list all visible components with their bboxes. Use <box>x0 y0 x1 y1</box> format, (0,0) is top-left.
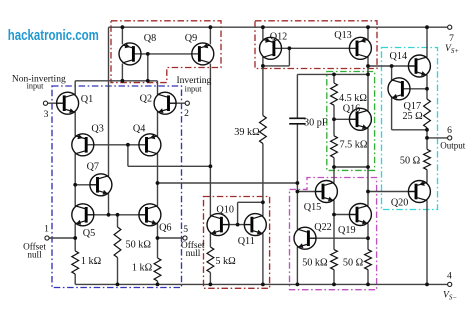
value 1 kOhm right <box>132 263 153 274</box>
pin number 1 <box>44 223 49 234</box>
junction Q19 emitter / Q22 base <box>366 236 370 240</box>
svg-text:hackatronic.com: hackatronic.com <box>8 27 99 44</box>
label Q22 <box>314 222 332 233</box>
wire Q17 base <box>410 88 427 90</box>
wire Q17 collector <box>391 66 393 80</box>
wire Q5 emitter <box>74 223 76 251</box>
resistor 7.5k <box>331 136 338 158</box>
label Q20 <box>391 197 409 208</box>
transistor Q6 <box>139 204 161 226</box>
label Inverting input line2 <box>185 84 203 93</box>
junction Q11 emitter / V- rail <box>261 283 265 287</box>
wire Q12 base tie down <box>288 48 290 66</box>
label Q9 <box>185 33 197 44</box>
wire 25ohm bottom node <box>426 128 428 150</box>
junction Q12 collector <box>261 64 265 68</box>
wire 4.5k-7.5k middle <box>333 105 335 136</box>
junction Q20 base / Q19 collector <box>366 190 370 194</box>
junction Q16 collector <box>366 73 370 77</box>
junction Q22 emitter / V- rail <box>296 283 300 287</box>
svg-text:5: 5 <box>183 224 188 235</box>
svg-text:5 kΩ: 5 kΩ <box>215 256 236 267</box>
wire 39k bottom to Q11 collector <box>262 144 264 216</box>
svg-text:Q7: Q7 <box>87 161 99 172</box>
junction Q10-Q11 base tie <box>236 223 240 227</box>
wire Q2 base to pin2 <box>168 102 185 104</box>
junction Q14 collector / V+ rail <box>425 25 429 29</box>
svg-text:Q12: Q12 <box>270 31 288 42</box>
wire Q15 base <box>297 191 323 193</box>
wire cap bottom vertical to Q22 collector <box>296 124 298 230</box>
junction 50ohm-2 bottom / V- rail <box>366 283 370 287</box>
svg-text:4: 4 <box>447 270 452 281</box>
transistor Q20 <box>408 181 430 203</box>
wire V_S+ top rail <box>109 26 448 28</box>
wire 50ohm-2 bottom lead <box>367 270 369 285</box>
wire to Q14 base <box>368 65 416 67</box>
wire 50ohm to Q20 emitter <box>426 170 428 183</box>
svg-text:input: input <box>27 82 45 91</box>
pin number 6 <box>447 125 452 136</box>
resistor 4.5k <box>331 83 338 105</box>
capacitor 30pF <box>289 118 305 124</box>
value 50 kOhm second stage <box>302 258 328 269</box>
wire 50k top lead <box>117 215 119 227</box>
section box: current mirror Q10/Q11 (red) <box>204 197 270 289</box>
junction Q8 collector node <box>121 79 125 83</box>
label Q2 <box>140 93 152 104</box>
svg-text:6: 6 <box>447 125 452 136</box>
wire Q11 emitter <box>262 233 264 284</box>
svg-text:Q19: Q19 <box>338 225 356 236</box>
svg-text:7: 7 <box>449 33 454 44</box>
wire Q4 collector to Q6 collector <box>157 154 159 207</box>
wire Q20 collector <box>426 200 428 284</box>
junction output node <box>425 136 429 140</box>
wire Q14 collector <box>426 27 428 57</box>
wire Q14 emitter to 25ohm <box>426 75 428 99</box>
wire Q3 collector to Q5 collector <box>74 154 76 207</box>
wire Q7 base <box>75 184 98 186</box>
pin number 2 <box>184 108 189 119</box>
junction Q20 collector / V- rail <box>425 283 429 287</box>
pin number 5 <box>183 224 188 235</box>
junction Q9 collector / Q3-Q4 base <box>209 164 213 168</box>
resistor 39k <box>260 116 267 144</box>
wire Q8 emitter <box>121 27 123 44</box>
transistor Q16 <box>349 108 371 130</box>
svg-text:3: 3 <box>44 109 49 120</box>
junction 50k-2 bottom / V- rail <box>332 283 336 287</box>
value 1 kOhm left <box>81 256 102 267</box>
junction Q11 collector tie <box>261 200 265 204</box>
wire Q10 emitter to 5k <box>209 233 211 247</box>
resistor 50k input stage <box>114 227 121 258</box>
label Q13 <box>334 30 352 41</box>
wire Q12 base tie across <box>263 65 290 67</box>
svg-text:Q3: Q3 <box>91 124 103 135</box>
wire Q12-Q13 base rail <box>281 47 349 49</box>
junction Q12 emitter / V+ rail <box>261 25 265 29</box>
wire Q9 collector down to Q10 <box>209 64 211 216</box>
transistor Q8 <box>119 43 141 65</box>
section box: differential input stage (blue) <box>52 86 182 288</box>
transistor Q3 <box>72 134 94 156</box>
wire Q15 emitter to 50k <box>333 200 335 249</box>
junction Q9 emitter / V+ rail <box>209 25 213 29</box>
wire Q5-Q6 base rail <box>86 214 146 216</box>
junction Q17 collector <box>390 64 394 68</box>
label V_S- supply <box>443 291 457 302</box>
svg-text:Q10: Q10 <box>216 204 234 215</box>
wire Q13 emitter <box>367 27 369 39</box>
label Offset null pin1 line1 <box>23 241 46 251</box>
wire Q22 base <box>308 237 368 239</box>
junction 50k bottom / V- rail <box>116 283 120 287</box>
pin number 4 <box>447 270 452 281</box>
svg-text:Output: Output <box>440 140 466 150</box>
wire Q2 collector <box>157 81 159 95</box>
transistor Q4 <box>139 134 161 156</box>
svg-text:Q11: Q11 <box>238 236 255 247</box>
junction cap bottom / stage link <box>296 181 300 185</box>
resistor 5k <box>207 247 214 273</box>
junction Q5 emitter / pin1 <box>73 236 77 240</box>
resistor 50ohm second stage <box>365 250 372 270</box>
svg-text:null: null <box>186 249 201 259</box>
svg-text:1 kΩ: 1 kΩ <box>81 256 102 267</box>
wire V+ drop to Q7 collector <box>108 27 110 176</box>
wire Q12 emitter <box>262 27 264 39</box>
wire Q10-Q11 base rail <box>221 224 252 226</box>
wire 7.5k bottom lead <box>333 158 335 167</box>
label Inverting input line1 <box>176 76 211 86</box>
transistor Q1 <box>57 92 79 114</box>
wire Q11 base tie to collector <box>238 201 263 203</box>
svg-text:2: 2 <box>184 108 189 119</box>
transistor Q12 <box>260 37 282 59</box>
transistor Q22 <box>294 227 316 249</box>
svg-text:50 kΩ: 50 kΩ <box>302 258 328 269</box>
junction Q7 emitter / Q5-Q6 base rail <box>107 213 111 217</box>
junction Q4 collector tap <box>156 181 160 185</box>
junction 4.5k top <box>332 73 336 77</box>
transistor Q10 <box>207 214 229 236</box>
svg-text:Q2: Q2 <box>140 93 152 104</box>
wire cap top vertical <box>296 74 298 118</box>
svg-text:30 pF: 30 pF <box>304 117 328 128</box>
transistor Q11 <box>244 214 266 236</box>
wire Q22 emitter <box>296 247 298 284</box>
wire Q11 base tie up <box>237 202 239 224</box>
value 4.5 kOhm <box>339 93 367 104</box>
wire Q17 emitter vertical <box>391 98 393 130</box>
value 50 Ohm second stage <box>343 258 364 269</box>
wire 5k bottom lead <box>209 273 211 285</box>
value 5 kOhm <box>215 256 236 267</box>
svg-text:1: 1 <box>44 223 49 234</box>
value 50 kOhm input <box>125 240 151 251</box>
svg-text:Q6: Q6 <box>159 223 171 234</box>
label Offset null pin5 line1 <box>181 240 205 251</box>
resistor 50k second stage <box>331 250 338 270</box>
wire Q19 collector <box>367 167 369 206</box>
junction Q13 collector / Q14 base <box>366 64 370 68</box>
wire Q19 base <box>334 214 357 216</box>
terminal pin 5 offset null <box>183 236 187 240</box>
svg-text:4.5 kΩ: 4.5 kΩ <box>339 93 367 104</box>
wire base-rail tap down <box>127 145 129 167</box>
wire Q12 collector to 39k <box>262 57 264 116</box>
junction Q14 emitter / Q17 base <box>425 87 429 91</box>
resistor 1k right <box>154 258 161 281</box>
svg-text:Q15: Q15 <box>304 202 322 213</box>
resistor 25ohm <box>424 99 431 128</box>
wire output to pin6 <box>427 137 448 139</box>
transistor Q14 <box>408 55 430 77</box>
label Q11 <box>238 236 255 247</box>
wire 50k-2 bottom lead <box>333 270 335 285</box>
svg-text:Q16: Q16 <box>343 103 361 114</box>
svg-text:25 Ω: 25 Ω <box>402 111 423 122</box>
label Q16 <box>343 103 361 114</box>
junction Q15 emitter / Q19 base <box>332 213 336 217</box>
label Q12 <box>270 31 288 42</box>
junction Q16 base <box>332 117 336 121</box>
junction Q16 emitter / Q19 collector <box>366 165 370 169</box>
wire 4.5k top lead <box>333 74 335 83</box>
label Q17 <box>404 101 422 112</box>
section box: output stage (cyan) <box>382 48 438 210</box>
pin number 7 <box>449 33 454 44</box>
wire 1k-left bottom lead <box>74 274 76 284</box>
transistor Q2 <box>154 92 176 114</box>
svg-text:Q1: Q1 <box>81 94 93 105</box>
label Offset null pin1 line2 <box>27 249 42 259</box>
wire Q20 base <box>368 191 416 193</box>
wire pin3 to Q1 base <box>48 102 65 104</box>
transistor Q5 <box>72 204 94 226</box>
label Q3 <box>91 124 103 135</box>
label Q4 <box>133 124 145 135</box>
junction Q6 emitter / pin5 <box>156 236 160 240</box>
wire tap to Q9/Q10 line <box>128 165 210 167</box>
wire Q1 collector <box>74 81 76 95</box>
terminal pin 2 inverting input <box>185 101 189 105</box>
transistor Q13 <box>349 37 371 59</box>
wire VBE-multiplier bottom <box>334 166 368 168</box>
wire Q16 base <box>334 118 357 120</box>
wire 50k bottom lead <box>117 258 119 285</box>
junction Q8 base tie <box>146 52 150 56</box>
label Non-inverting input line2 <box>27 82 45 91</box>
transistor Q19 <box>349 204 371 226</box>
value 50 Ohm output <box>400 155 421 166</box>
terminal pin 1 offset null <box>45 236 49 240</box>
terminal pin 6 output <box>448 136 452 140</box>
junction 5k bottom / V- rail <box>209 283 213 287</box>
wire pin5 offset null <box>158 237 183 239</box>
svg-text:Q13: Q13 <box>334 30 352 41</box>
svg-text:50 Ω: 50 Ω <box>400 155 421 166</box>
wire Q6 emitter <box>157 223 159 258</box>
label Q10 <box>216 204 234 215</box>
junction Q3-Q4 base rail tap <box>126 143 130 147</box>
label Q15 <box>304 202 322 213</box>
wire Q8-Q9 base rail <box>141 53 192 55</box>
label Non-inverting input line1 <box>12 75 66 85</box>
svg-text:Q4: Q4 <box>133 124 145 135</box>
svg-text:Q22: Q22 <box>314 222 332 233</box>
resistor 50ohm output <box>424 149 431 169</box>
section box: class-A gain stage (magenta) <box>290 178 377 290</box>
svg-text:Q20: Q20 <box>391 197 409 208</box>
junction Q15 base / Q22 collector <box>296 190 300 194</box>
junction 50k top / base rail <box>116 213 120 217</box>
svg-text:39 kΩ: 39 kΩ <box>234 127 260 138</box>
terminal pin 3 non-inverting input <box>43 101 47 105</box>
wire Q19 emitter <box>367 223 369 249</box>
section box: current mirror Q12/Q13 (red) <box>255 21 377 69</box>
label Q6 <box>159 223 171 234</box>
label Q1 <box>81 94 93 105</box>
pin number 3 <box>44 109 49 120</box>
junction 25ohm bottom / Q17 emitter <box>425 128 429 132</box>
terminal pin 4 V_S- <box>448 282 452 286</box>
junction base tie / collector node <box>146 79 150 83</box>
terminal pin 7 V_S+ <box>448 25 452 29</box>
transistor Q7 <box>90 174 112 196</box>
wire V_S- bottom rail <box>75 283 447 285</box>
wire Q9 emitter <box>209 27 211 44</box>
svg-text:Q8: Q8 <box>144 33 156 44</box>
value 39 kOhm <box>234 127 260 138</box>
svg-text:input: input <box>185 84 203 93</box>
label Q19 <box>338 225 356 236</box>
wire Q3-Q4 base rail <box>94 144 139 146</box>
wire input collectors node <box>75 80 157 82</box>
resistor 1k left <box>72 251 79 274</box>
svg-text:7.5 kΩ: 7.5 kΩ <box>340 139 368 150</box>
svg-text:Q9: Q9 <box>185 33 197 44</box>
junction Q8 emitter / V+ rail <box>121 25 125 29</box>
wire Q13 collector to Q16 collector <box>367 57 369 111</box>
wire first stage output to second stage <box>158 182 298 184</box>
junction 1k-right bottom / V- rail <box>156 283 160 287</box>
wire pin1 offset null <box>49 237 75 239</box>
wire 1k-right bottom lead <box>157 281 159 284</box>
svg-text:50 kΩ: 50 kΩ <box>125 240 151 251</box>
wire Q1 emitter to Q3 emitter <box>74 112 76 136</box>
watermark hackatronic.com <box>8 27 99 44</box>
section box: voltage level shifter Q16 (green) <box>327 72 375 171</box>
label Q7 <box>87 161 99 172</box>
wire Q8 collector <box>121 64 123 81</box>
label Output <box>440 140 466 150</box>
svg-text:1 kΩ: 1 kΩ <box>132 263 153 274</box>
wire Q17 emitter horizontal <box>392 129 427 131</box>
label Q5 <box>83 228 95 239</box>
transistor Q9 <box>192 43 214 65</box>
wire compensation-cap top horizontal <box>297 73 368 75</box>
junction 7.5k bottom / Q15 collector <box>332 165 336 169</box>
wire Q2 emitter to Q4 emitter <box>157 112 159 136</box>
wire Q15 collector <box>333 167 335 183</box>
transistor Q15 <box>315 181 337 203</box>
wire Q7 emitter <box>108 193 110 214</box>
svg-text:50 Ω: 50 Ω <box>343 258 364 269</box>
label V_S+ supply <box>445 44 459 55</box>
value 25 Ohm <box>402 111 423 122</box>
label Q8 <box>144 33 156 44</box>
label Q14 <box>390 51 408 62</box>
svg-text:Q5: Q5 <box>83 228 95 239</box>
value 30 pF <box>304 117 328 128</box>
wire Q16 emitter <box>367 128 369 167</box>
transistor Q17 <box>388 78 410 100</box>
value 7.5 kOhm <box>340 139 368 150</box>
section box: input-stage current mirror Q8/Q9 (red) <box>111 21 221 83</box>
junction Q7 base tap <box>73 183 77 187</box>
svg-text:null: null <box>27 249 42 259</box>
wire Q8 base-collector tie <box>147 54 149 81</box>
label Offset null pin5 line2 <box>186 249 201 259</box>
svg-text:Q14: Q14 <box>390 51 408 62</box>
junction Q12 base tie <box>288 46 292 50</box>
junction Q13 emitter / V+ rail <box>366 25 370 29</box>
